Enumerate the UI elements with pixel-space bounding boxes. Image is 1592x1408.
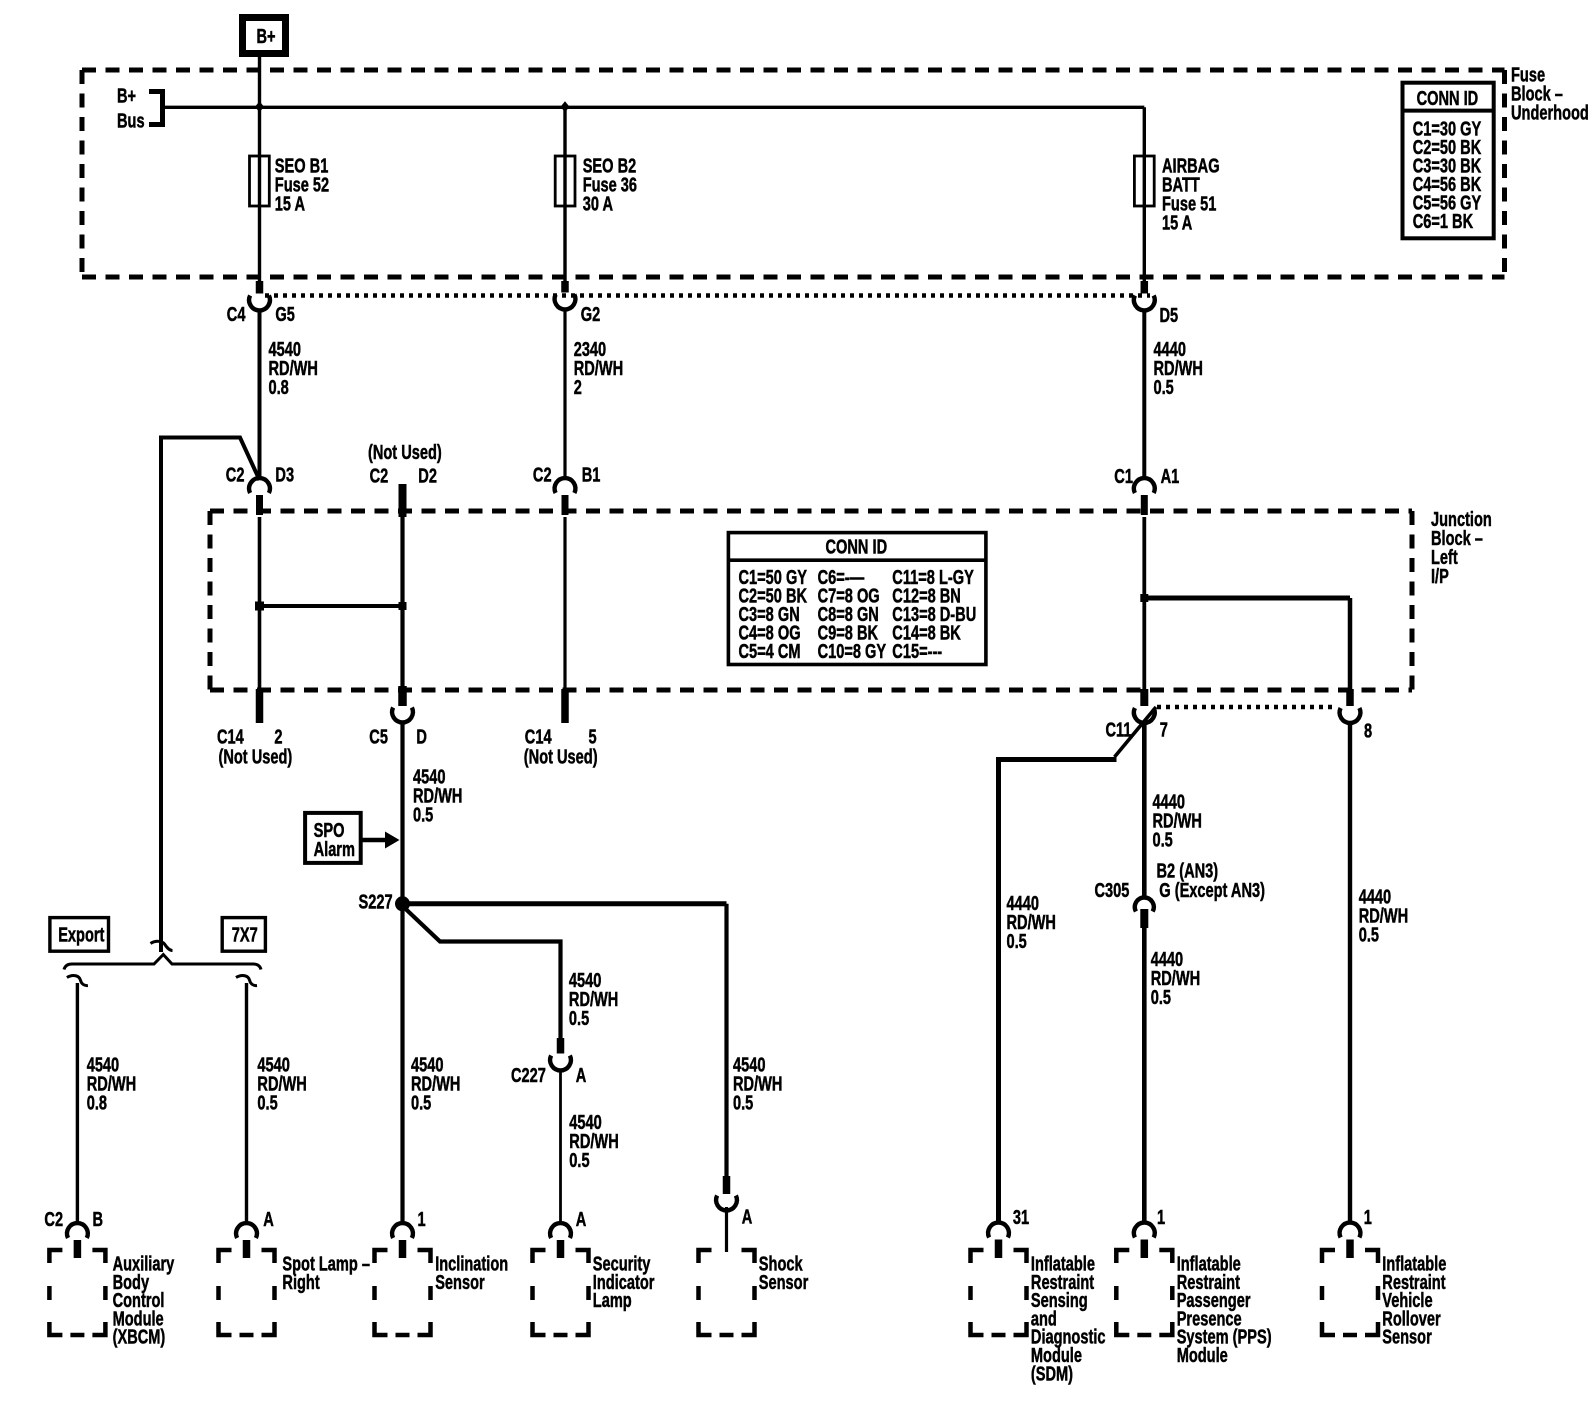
svg-text:A: A <box>576 1064 587 1087</box>
svg-text:0.5: 0.5 <box>1359 923 1380 946</box>
svg-text:G (Except AN3): G (Except AN3) <box>1159 879 1265 902</box>
svg-text:(XBCM): (XBCM) <box>113 1325 166 1348</box>
svg-text:0.5: 0.5 <box>1007 930 1028 953</box>
svg-text:1: 1 <box>418 1208 426 1231</box>
svg-text:C10=8 GY: C10=8 GY <box>818 640 887 663</box>
svg-text:0.5: 0.5 <box>1154 376 1175 399</box>
svg-text:C2: C2 <box>226 463 245 486</box>
svg-text:Export: Export <box>58 923 104 946</box>
svg-text:C11: C11 <box>1106 718 1132 741</box>
svg-text:S227: S227 <box>359 890 393 913</box>
svg-text:C5=4 CM: C5=4 CM <box>739 640 801 663</box>
svg-text:B1: B1 <box>582 463 601 486</box>
svg-text:C5: C5 <box>369 725 388 748</box>
svg-text:D: D <box>416 725 427 748</box>
svg-text:0.5: 0.5 <box>257 1091 278 1114</box>
svg-text:C6=1 BK: C6=1 BK <box>1413 210 1474 233</box>
svg-text:G5: G5 <box>275 303 295 326</box>
svg-text:G2: G2 <box>581 303 601 326</box>
svg-text:D5: D5 <box>1160 304 1179 327</box>
svg-text:A: A <box>576 1208 587 1231</box>
svg-text:D2: D2 <box>418 464 437 487</box>
svg-text:(Not Used): (Not Used) <box>524 745 598 768</box>
svg-text:31: 31 <box>1013 1206 1029 1229</box>
svg-text:A1: A1 <box>1161 465 1180 488</box>
svg-text:B+: B+ <box>117 84 136 107</box>
svg-text:15 A: 15 A <box>1162 211 1193 234</box>
svg-text:8: 8 <box>1364 719 1372 742</box>
svg-text:7: 7 <box>1160 718 1168 741</box>
svg-text:Sensor: Sensor <box>759 1271 809 1294</box>
svg-text:D3: D3 <box>275 463 294 486</box>
svg-text:1: 1 <box>1157 1206 1165 1229</box>
svg-text:0.8: 0.8 <box>87 1091 108 1114</box>
svg-text:15 A: 15 A <box>275 192 306 215</box>
svg-text:(SDM): (SDM) <box>1031 1362 1073 1385</box>
svg-text:7X7: 7X7 <box>232 923 258 946</box>
svg-text:C1: C1 <box>1114 465 1133 488</box>
svg-text:CONN ID: CONN ID <box>1417 87 1479 110</box>
svg-text:0.5: 0.5 <box>569 1149 590 1172</box>
svg-text:0.5: 0.5 <box>413 803 434 826</box>
svg-text:C305: C305 <box>1095 879 1130 902</box>
svg-text:CONN ID: CONN ID <box>826 535 888 558</box>
svg-text:B+: B+ <box>257 25 276 48</box>
svg-text:0.5: 0.5 <box>1151 986 1172 1009</box>
svg-text:0.5: 0.5 <box>733 1091 754 1114</box>
svg-text:0.5: 0.5 <box>411 1091 432 1114</box>
svg-text:C4: C4 <box>227 303 246 326</box>
svg-text:C2: C2 <box>370 464 389 487</box>
svg-text:0.8: 0.8 <box>269 376 290 399</box>
svg-text:B: B <box>93 1208 104 1231</box>
svg-text:C15=---: C15=--- <box>892 640 942 663</box>
svg-text:Alarm: Alarm <box>314 838 355 861</box>
svg-text:1: 1 <box>1364 1206 1372 1229</box>
svg-text:C2: C2 <box>44 1208 63 1231</box>
svg-text:30 A: 30 A <box>583 192 614 215</box>
svg-text:(Not Used): (Not Used) <box>368 441 442 464</box>
svg-text:Sensor: Sensor <box>435 1271 485 1294</box>
svg-text:C227: C227 <box>511 1064 546 1087</box>
svg-text:Sensor: Sensor <box>1382 1325 1432 1348</box>
svg-text:Lamp: Lamp <box>593 1289 632 1312</box>
svg-text:Module: Module <box>1177 1344 1228 1367</box>
svg-text:(Not Used): (Not Used) <box>219 745 293 768</box>
svg-text:A: A <box>263 1208 274 1231</box>
svg-text:A: A <box>742 1205 753 1228</box>
svg-text:I/P: I/P <box>1431 565 1449 588</box>
svg-text:Bus: Bus <box>117 109 145 132</box>
svg-text:2: 2 <box>574 376 582 399</box>
svg-text:0.5: 0.5 <box>1153 828 1174 851</box>
svg-text:0.5: 0.5 <box>569 1007 590 1030</box>
svg-text:C2: C2 <box>533 463 552 486</box>
svg-text:Right: Right <box>282 1271 319 1294</box>
svg-text:Underhood: Underhood <box>1511 101 1589 124</box>
